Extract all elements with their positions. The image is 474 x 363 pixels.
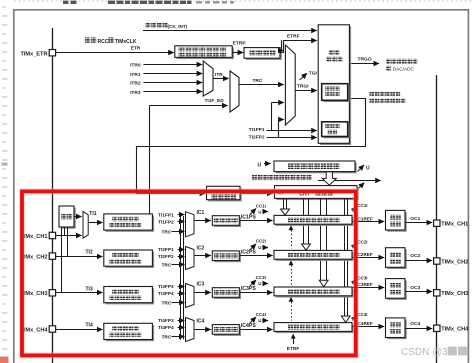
- svg-text:ITR2: ITR2: [130, 81, 141, 87]
- box: prescaler IC2: [214, 253, 241, 263]
- ETRF into capture/compare 4: [291, 334, 296, 339]
- svg-text:U: U: [258, 318, 261, 323]
- wire TRC to TRGI mux: [239, 84, 284, 86]
- box: output control 4: [387, 320, 407, 340]
- box: input filter & edge detector ch2: [106, 252, 155, 268]
- hollow arrowheads into registers: [281, 209, 290, 215]
- left pin rail: [52, 28, 54, 363]
- pin TIMx_CH1 (right): [434, 220, 440, 226]
- wire OC2 to pin: [405, 260, 432, 262]
- svg-text:ITR: ITR: [215, 72, 223, 78]
- svg-text:IC2PS: IC2PS: [241, 250, 257, 256]
- svg-text:TI2: TI2: [86, 250, 93, 256]
- capture event CC2I (left): [250, 244, 256, 250]
- svg-text:OC4: OC4: [410, 321, 420, 327]
- svg-text:CC2I: CC2I: [256, 239, 266, 244]
- label: from RCC TIMxCLK: [85, 37, 90, 43]
- svg-text:RCC: RCC: [98, 39, 109, 45]
- svg-text:TIMx_CH2: TIMx_CH2: [441, 259, 468, 265]
- svg-text:TRC: TRC: [162, 230, 172, 236]
- svg-text:ETR: ETR: [131, 45, 141, 51]
- svg-text:IC3: IC3: [197, 282, 205, 288]
- wire OC4REF: [352, 326, 384, 328]
- U event right: [358, 165, 365, 172]
- XOR input taps: [61, 227, 63, 293]
- pin square TIMx_ETR: [49, 50, 55, 56]
- box: XOR: [61, 208, 76, 229]
- box: capture/compare register 1: [276, 217, 354, 226]
- mux ITR select: [203, 61, 213, 96]
- wire IC1PS: [240, 220, 273, 222]
- mux IC3 select: [186, 284, 195, 308]
- capture event CC3I (left): [250, 280, 256, 286]
- mux TRC select: [230, 71, 239, 112]
- box: output control 1: [387, 212, 407, 232]
- wire CK_CNT: [240, 193, 273, 195]
- wire U event long arrow: [318, 180, 381, 182]
- svg-text:CSDN @32: CSDN @32: [401, 347, 454, 358]
- wire OC2REF: [352, 257, 384, 259]
- svg-text:CC4I: CC4I: [256, 312, 266, 317]
- inter-row signal link wires: [180, 216, 182, 340]
- compare event dotted up-arrows: [289, 225, 294, 230]
- pin TIMx_CH3 (right): [434, 290, 440, 296]
- capture event CC4I (left): [250, 317, 256, 323]
- box: CNT counter: [276, 187, 359, 200]
- ETRF branch into TRGI mux: [281, 40, 283, 51]
- mux IC4 select: [186, 318, 195, 342]
- TGI event arrow: [300, 73, 308, 80]
- svg-text:TIMx_CH4: TIMx_CH4: [441, 327, 469, 333]
- wire IC4PS: [240, 329, 273, 331]
- svg-text:ITR1: ITR1: [130, 72, 141, 78]
- box: prescaler IC4: [214, 326, 241, 336]
- svg-text:TI4: TI4: [86, 322, 93, 328]
- mux IC1 select: [186, 212, 195, 237]
- wire ETR: [56, 52, 174, 54]
- svg-text:ETRF: ETRF: [287, 34, 300, 40]
- svg-text:IC1PS: IC1PS: [241, 214, 257, 220]
- svg-text:TIMx_CH1: TIMx_CH1: [441, 222, 468, 228]
- svg-text:U: U: [258, 163, 262, 169]
- svg-text:IC4PS: IC4PS: [241, 323, 257, 329]
- svg-text:TIMxCLK: TIMxCLK: [115, 39, 137, 45]
- svg-text:TIMx_ETR: TIMx_ETR: [20, 51, 47, 57]
- svg-text:TI3FP4: TI3FP4: [158, 291, 174, 297]
- box: encoder interface: [323, 124, 349, 139]
- hollow update arrow reload->CNT: [322, 172, 336, 185]
- svg-text:IC4: IC4: [197, 319, 205, 325]
- box: slave mode controller: [323, 85, 349, 102]
- svg-text:TRC: TRC: [162, 262, 172, 268]
- wire: slave mode ctrl to prescaler (CK path): [137, 99, 366, 194]
- svg-text:ITR0: ITR0: [130, 63, 141, 69]
- wire OC3REF: [352, 287, 384, 289]
- svg-text:TI1FP2: TI1FP2: [158, 219, 174, 225]
- wire ETRF up and to trigger controller: [280, 52, 283, 54]
- svg-text:TRGI: TRGI: [297, 84, 309, 90]
- svg-text:U: U: [258, 210, 261, 215]
- svg-text:CC3I: CC3I: [256, 275, 266, 280]
- svg-text:CC4I: CC4I: [358, 312, 368, 317]
- box: output control 3: [387, 280, 407, 300]
- box: input filter & edge detector ch3: [106, 288, 155, 304]
- wire OC1REF: [352, 221, 384, 223]
- wire IC3PS: [240, 292, 273, 294]
- svg-text:TIMx_CH3: TIMx_CH3: [441, 291, 468, 297]
- mux TRGI select: [285, 45, 295, 125]
- svg-text:U: U: [258, 281, 261, 286]
- wire IC2PS: [240, 255, 273, 257]
- svg-text:IC3PS: IC3PS: [241, 286, 257, 292]
- svg-text:TI3FP3: TI3FP3: [158, 284, 174, 290]
- svg-text:DAC/ADC: DAC/ADC: [393, 66, 415, 71]
- svg-text:TRC: TRC: [253, 78, 263, 84]
- svg-text:TRC: TRC: [162, 334, 172, 340]
- wire OC4 to pin: [405, 328, 432, 330]
- wire OC1 to pin: [405, 222, 432, 224]
- svg-text:TRC: TRC: [162, 300, 172, 306]
- box: input filter & edge detector ch4: [106, 325, 155, 341]
- svg-text:TI1: TI1: [89, 211, 96, 217]
- pin TIMx_CH4 (right): [434, 325, 440, 331]
- svg-text:TI1FP1: TI1FP1: [158, 212, 174, 218]
- svg-text:CC1I: CC1I: [256, 203, 266, 208]
- svg-text:OC1: OC1: [410, 216, 420, 222]
- box: trigger controller: [320, 27, 351, 146]
- mux TI1 select: [83, 211, 88, 238]
- svg-text:ETRP: ETRP: [233, 41, 247, 47]
- label: stopped cleared or up/down: [252, 175, 257, 180]
- svg-text:TGI: TGI: [309, 70, 318, 76]
- svg-text:CC3I: CC3I: [358, 276, 368, 281]
- svg-text:OC2: OC2: [410, 253, 420, 259]
- box: input filter (ETR): [246, 49, 282, 60]
- svg-text:TRGO: TRGO: [358, 56, 372, 62]
- label: to other timers / to DAC-ADC: [386, 59, 391, 64]
- box: prescaler IC1: [214, 217, 241, 227]
- capture event CC1I (left): [250, 209, 256, 215]
- svg-text:TI2FP1: TI2FP1: [158, 247, 174, 253]
- svg-text:IC2: IC2: [197, 245, 205, 251]
- wire TI1F_ED: [149, 105, 151, 214]
- red highlight annotation box: [22, 191, 356, 355]
- wire CK_INT to trigger controller: [143, 30, 317, 32]
- box: input filter & edge detector ch1: [106, 216, 155, 232]
- svg-text:TI1F_ED: TI1F_ED: [205, 98, 225, 104]
- cropped figure title (partial text row): [14, 0, 474, 2]
- box: capture/compare register 3: [276, 289, 354, 298]
- svg-text:ITR3: ITR3: [130, 90, 141, 96]
- svg-text:CC1I: CC1I: [358, 203, 368, 208]
- box: capture/compare register 4: [276, 324, 354, 333]
- box: auto-reload register: [276, 163, 357, 174]
- CNT to capture register bus shafts: [283, 199, 285, 209]
- svg-text:TI2FP2: TI2FP2: [249, 135, 265, 141]
- box: prescaler IC3: [214, 289, 241, 299]
- svg-text:CC2I: CC2I: [358, 239, 368, 244]
- svg-text:U: U: [258, 245, 261, 250]
- box: capture/compare register 2: [276, 252, 354, 261]
- svg-text:TI4FP4: TI4FP4: [158, 325, 174, 331]
- branches into TRGI mux: [271, 102, 273, 130]
- svg-text:TI1FP1: TI1FP1: [249, 127, 265, 133]
- wire TRGO out: [351, 63, 379, 65]
- box: output control 2: [387, 249, 407, 269]
- svg-text:OC3: OC3: [410, 285, 420, 291]
- pin TIMx_CH2 (right): [434, 258, 440, 264]
- svg-text:ETRF: ETRF: [287, 346, 300, 352]
- right pin rail: [436, 75, 438, 363]
- svg-text:TI4FP3: TI4FP3: [158, 318, 174, 324]
- box: polarity selection, edge detection & prescaler: [177, 48, 234, 60]
- XOR out to TI1 mux: [74, 216, 82, 218]
- mux IC2 select: [186, 247, 195, 270]
- svg-text:U: U: [366, 166, 370, 172]
- svg-text:IC1: IC1: [197, 210, 205, 216]
- page edge texture strip: [2, 6, 6, 8]
- svg-text:(CK_INT): (CK_INT): [168, 24, 188, 29]
- svg-text:TI3: TI3: [86, 286, 93, 292]
- label: reset enable up/down count: [370, 92, 375, 97]
- box: PSC prescaler: [208, 188, 242, 201]
- svg-text:TI2FP2: TI2FP2: [158, 254, 174, 260]
- wire OC3 to pin: [405, 291, 432, 293]
- label: internal clock CK_INT: [146, 23, 151, 28]
